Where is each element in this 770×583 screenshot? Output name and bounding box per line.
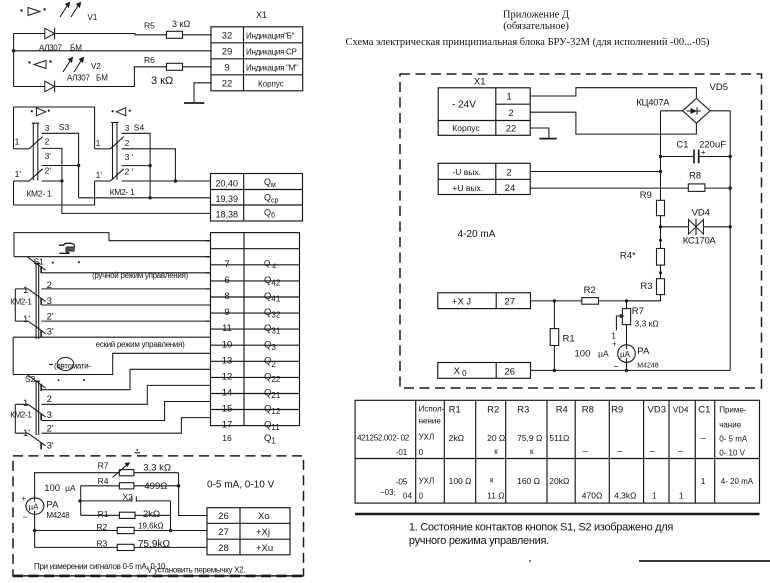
rectifier bridge VD5 (683, 98, 710, 123)
svg-text:13: 13 (222, 355, 233, 366)
svg-text:29: 29 (222, 47, 233, 58)
S2 contact seat 3 (40, 413, 42, 420)
svg-text:R2: R2 (487, 405, 499, 416)
wire meter plus to R7 row (35, 473, 120, 498)
svg-text:19,6kΩ: 19,6kΩ (138, 522, 164, 531)
left bus (minus rail) (660, 111, 662, 201)
svg-text:Q11: Q11 (264, 420, 280, 433)
capacitor C1 (661, 150, 731, 164)
tick marks on S2 top (58, 379, 60, 381)
svg-text:4-20 mA: 4-20 mA (458, 229, 496, 240)
svg-text:Q3: Q3 (264, 339, 276, 352)
svg-text:24: 24 (505, 183, 516, 194)
node above R4* (659, 239, 662, 242)
svg-text:15: 15 (222, 404, 233, 415)
svg-text:VD4: VD4 (692, 208, 710, 219)
svg-text:20,40: 20,40 (216, 178, 239, 188)
svg-text:1': 1' (15, 169, 22, 179)
wire R6 to X1 pin 9 (183, 66, 212, 68)
S3 moving contact 1' (29, 169, 42, 181)
variable resistor R7 (right) (622, 309, 630, 325)
svg-text:Испол-: Испол- (419, 405, 445, 414)
LED V1 light arrows (60, 3, 81, 18)
svg-text:2: 2 (506, 167, 511, 178)
svg-text:1: 1 (96, 138, 101, 148)
wire S2 contact a to pin14 row (step) (42, 369, 211, 389)
svg-text:Q1: Q1 (264, 433, 276, 446)
svg-text:11 Ω: 11 Ω (487, 490, 505, 500)
resistor R1 (119, 512, 135, 518)
svg-text:R7: R7 (98, 461, 109, 471)
svg-text:100: 100 (44, 483, 60, 494)
wire R5 to X1 pin 32 (183, 34, 212, 36)
S1 contact seat 3' (40, 330, 42, 337)
svg-text:Q 4: Q 4 (264, 259, 276, 271)
svg-text:R1: R1 (563, 334, 575, 345)
svg-text:V2: V2 (91, 62, 101, 71)
svg-text:22: 22 (222, 79, 233, 90)
svg-text:18,38: 18,38 (216, 209, 239, 219)
svg-text:3': 3' (45, 151, 52, 161)
wire pin 1 to bridge top (530, 88, 696, 99)
S1 contact seat a (40, 266, 42, 273)
wire S2 contacts 1'-2' to pin16 row (step) (15, 418, 210, 434)
right bus (plus rail) (729, 111, 731, 371)
svg-text:R3: R3 (96, 539, 107, 549)
svg-text:к: к (530, 447, 534, 456)
wire S3 contact 2 (42, 148, 62, 181)
svg-text:R3: R3 (640, 281, 652, 292)
wire S2 contact 3 to pin17 row (step) (42, 402, 211, 421)
wire S3 contact 1 (14, 148, 30, 150)
svg-text:3 ': 3 ' (125, 152, 134, 162)
resistor R9 (657, 200, 665, 215)
wire pin 27 row to R2 (531, 300, 582, 302)
svg-text:БМ: БМ (70, 44, 82, 53)
svg-text:04: 04 (403, 491, 412, 500)
svg-text:Индикация СР: Индикация СР (246, 47, 297, 56)
svg-text:R5: R5 (144, 21, 155, 31)
svg-text:нение: нение (419, 416, 442, 425)
svg-text:+Хj: +Хj (256, 527, 270, 538)
left bus below R9 (660, 216, 662, 249)
wire R3 row to pin 28 (35, 546, 207, 548)
svg-text:КМ2-1: КМ2-1 (10, 297, 32, 306)
svg-text:10: 10 (222, 339, 233, 350)
svg-text:R3: R3 (517, 405, 529, 416)
V1 indicator symbol (open triangle with dots) (20, 8, 45, 16)
S2 moving contact 1 (28, 404, 46, 417)
svg-text:–: – (678, 446, 683, 456)
svg-text:1': 1' (23, 314, 30, 325)
svg-text:+U вых.: +U вых. (452, 183, 483, 193)
wire X1 pin 22 to ground (194, 83, 211, 103)
svg-text:R9: R9 (640, 190, 652, 201)
wire S4 contact 3' (122, 165, 151, 167)
wire R2 to R7 node (599, 300, 661, 302)
svg-text:V установить перемычку Х2.: V установить перемычку Х2. (147, 566, 245, 575)
dashed block border (13, 456, 304, 576)
variable resistor R7 (119, 470, 133, 476)
wire to X1 pin 29 (14, 50, 211, 52)
wire meter minus bus (34, 514, 36, 547)
svg-text:2: 2 (508, 108, 513, 119)
svg-text:+: + (612, 340, 617, 349)
svg-text:−: − (614, 361, 619, 371)
svg-text:Х 0: Х 0 (454, 366, 468, 378)
X2/R1/R2 right bus (170, 501, 172, 531)
tick marks on S1 top (52, 262, 54, 264)
svg-text:3 кΩ: 3 кΩ (151, 75, 173, 87)
resistor R4 (119, 483, 133, 489)
svg-text:100: 100 (575, 349, 591, 360)
svg-text:3': 3' (47, 327, 54, 338)
S3 indicator triangle (31, 108, 50, 116)
svg-text:µА: µА (598, 349, 609, 359)
svg-text:0: 0 (419, 448, 424, 457)
svg-text:C1: C1 (698, 405, 710, 416)
resistor R4* (657, 249, 665, 266)
S1 moving contact 1' (28, 321, 46, 334)
svg-text:УХЛ: УХЛ (419, 432, 435, 441)
S2 moving contact 1' (28, 433, 46, 446)
svg-text:R4: R4 (98, 476, 109, 486)
svg-text:(обязательное): (обязательное) (503, 21, 569, 32)
wires entering connector table rows 1-6 (205, 241, 211, 321)
wire row pin6 (S1 common) (14, 256, 211, 258)
svg-text:100 Ω: 100 Ω (449, 476, 472, 486)
svg-text:АЛ307: АЛ307 (67, 74, 90, 83)
svg-text:2: 2 (125, 138, 130, 148)
svg-text:Корпус: Корпус (258, 79, 284, 88)
connector table (pins 7..16) (211, 233, 300, 426)
svg-text:- 24V: - 24V (452, 100, 476, 111)
svg-text:R1: R1 (98, 509, 109, 519)
svg-text:1: 1 (15, 137, 20, 147)
svg-text:АЛ307: АЛ307 (39, 44, 62, 53)
node R8 right (729, 186, 732, 189)
svg-text:Схема электрическая принципиал: Схема электрическая принципиальная блока… (345, 37, 710, 48)
svg-text:Q12: Q12 (264, 404, 281, 417)
svg-text:17: 17 (222, 420, 233, 431)
svg-text:1': 1' (23, 428, 30, 439)
svg-text:1: 1 (23, 398, 28, 409)
svg-text:470Ω: 470Ω (582, 491, 603, 501)
wire S1 contacts 1'-2' to pin10 row (15, 320, 210, 322)
wire S2 contacts 1-2 to pin15 row (step) (15, 385, 210, 404)
resistor R6 (167, 63, 183, 70)
svg-text:Приме-: Приме- (719, 406, 747, 415)
svg-text:µА: µА (620, 350, 631, 359)
svg-text:3: 3 (47, 410, 52, 421)
svg-text:499Ω: 499Ω (144, 481, 167, 492)
wire R1 right (135, 514, 171, 516)
ammeter PA (26, 498, 44, 514)
wire S3 contact 3' (42, 165, 79, 167)
svg-text:160 Ω: 160 Ω (517, 476, 540, 486)
svg-text:8: 8 (224, 291, 229, 302)
terminal table -U/+U вых (438, 163, 530, 194)
R7 wiper arrow (right) (616, 314, 624, 331)
svg-text:БМ: БМ (96, 74, 108, 83)
svg-text:16: 16 (222, 433, 232, 443)
wire V1 anode net (14, 34, 167, 35)
svg-text:7: 7 (224, 259, 229, 270)
LED V2 light arrows (63, 58, 84, 73)
svg-text:Индикация"Б": Индикация"Б" (246, 31, 295, 40)
svg-text:Индикация "М": Индикация "М" (246, 63, 298, 72)
svg-text:S3: S3 (59, 122, 70, 132)
wire R3 down to R2 node (627, 295, 661, 301)
svg-text:–: – (650, 446, 655, 456)
S1 left bracket (14, 289, 16, 321)
wire R4 right (134, 485, 179, 487)
node VD4 right (729, 225, 732, 228)
svg-text:+Х J: +Х J (452, 296, 472, 307)
S3 moving contact (29, 137, 42, 149)
node R1 top (553, 299, 556, 302)
svg-text:S4: S4 (134, 122, 145, 132)
svg-text:19,39: 19,39 (216, 194, 239, 204)
svg-text:220uF: 220uF (699, 140, 726, 151)
svg-text:4,3kΩ: 4,3kΩ (614, 491, 636, 501)
svg-text:26: 26 (218, 511, 229, 522)
svg-text:20kΩ: 20kΩ (549, 476, 569, 486)
V2 indicator symbol (open triangle with dots) (28, 60, 51, 68)
svg-text:9: 9 (224, 307, 229, 318)
S1 moving contact 1 (28, 289, 46, 302)
svg-text:VD4: VD4 (673, 406, 689, 415)
svg-text:2: 2 (47, 394, 52, 405)
svg-text:2 ': 2 ' (125, 166, 134, 176)
svg-text:1: 1 (23, 285, 28, 296)
wire S4 contact 2 (122, 149, 176, 181)
svg-text:0- 10 V: 0- 10 V (719, 449, 745, 458)
svg-text:Qср: Qср (264, 192, 279, 204)
resistor R5 (167, 31, 183, 38)
wire top link S3-1 to S4-1 (14, 107, 95, 149)
wire R4 left (81, 485, 120, 487)
svg-text:22: 22 (506, 124, 517, 135)
R7 wiper arrow (113, 462, 131, 477)
zener VD4 (two-anode) (689, 219, 704, 236)
S2 box left vertical (12, 337, 14, 374)
wire S3 contact 3 (42, 133, 79, 198)
svg-text:3,3 kΩ: 3,3 kΩ (143, 462, 171, 473)
S4 indicator triangle (112, 108, 131, 116)
wire meter to pin 26 row (626, 362, 628, 370)
svg-text:X1: X1 (474, 77, 486, 88)
svg-text:R8: R8 (689, 171, 701, 182)
small cross before автомати (49, 364, 53, 366)
wire S4 contact 2' to Qм row (122, 180, 212, 182)
svg-text:421252.002- 02: 421252.002- 02 (357, 433, 410, 442)
S1 contact seat 3 (40, 298, 42, 305)
svg-text:РА: РА (637, 346, 650, 357)
svg-text:VD3: VD3 (648, 405, 666, 416)
svg-text:32: 32 (222, 31, 233, 42)
svg-text:(ручной режим управления): (ручной режим управления) (92, 271, 189, 280)
svg-text:М4248: М4248 (46, 511, 70, 520)
svg-text:1': 1' (96, 170, 103, 180)
wire R2 row to pin 27 (35, 530, 207, 532)
wire VD4 row (661, 226, 731, 228)
svg-text:1: 1 (652, 491, 657, 501)
svg-text:1: 1 (701, 476, 706, 486)
svg-text:µА: µА (29, 502, 40, 511)
svg-text:2kΩ: 2kΩ (143, 509, 160, 520)
ammeter PA (right) (618, 345, 636, 363)
wire R7 top lead (626, 301, 628, 309)
wire V2 bottom net (14, 67, 167, 87)
node R7 top (625, 299, 628, 302)
svg-text:2kΩ: 2kΩ (449, 433, 464, 443)
svg-text:R4*: R4* (620, 250, 636, 261)
node S4 3/3' junction (148, 164, 151, 167)
svg-text:−: − (23, 512, 28, 522)
switch S4 plunger (111, 123, 119, 180)
svg-text:2: 2 (45, 137, 50, 147)
svg-text:R2: R2 (96, 522, 107, 532)
wire S1 contacts 1-2 to pin9 row (15, 288, 210, 290)
wire S4 contact 3 (122, 133, 151, 198)
svg-text:0-5 mA, 0-10 V: 0-5 mA, 0-10 V (207, 480, 275, 491)
wire Qб row (62, 181, 211, 213)
svg-text:X1: X1 (256, 10, 267, 20)
svg-text:20 Ω: 20 Ω (487, 433, 505, 443)
svg-text:Q22: Q22 (264, 372, 281, 385)
S2 contact seat 3' (40, 442, 42, 449)
svg-text:−03;: −03; (380, 488, 396, 497)
wire S2 common to pin12 row (step) (13, 353, 210, 374)
ground (right) (539, 138, 557, 140)
right bus (to pin 26) (179, 473, 207, 516)
S2 moving contact (27, 375, 45, 389)
svg-text:2: 2 (47, 280, 52, 291)
LED V1 (45, 28, 55, 40)
wire Qср row (79, 197, 211, 199)
node meter minus (625, 369, 628, 372)
wire S4 contact 1 (95, 148, 111, 150)
S4 moving contact (110, 137, 124, 149)
svg-text:Q32: Q32 (264, 307, 281, 320)
resistor R1 (right) (550, 329, 559, 346)
svg-text:12: 12 (222, 372, 233, 383)
svg-text:Корпус: Корпус (452, 123, 480, 133)
svg-text:C1: C1 (676, 140, 688, 151)
wire bottom link S3-1' to S4-1' (14, 181, 95, 205)
svg-text:11: 11 (222, 323, 232, 334)
S4 moving contact 1' (110, 169, 124, 181)
svg-text:Q41: Q41 (264, 291, 281, 304)
wire +U вых to R8 (530, 187, 688, 189)
wire S3 contact 2' (42, 180, 62, 182)
wire pin 22 to ground (530, 128, 549, 139)
ellipse mark around авто (57, 357, 74, 370)
svg-text:–: – (617, 446, 622, 456)
svg-text:R9: R9 (611, 405, 623, 416)
jumper X2 (81, 496, 171, 501)
node C1 left (659, 155, 662, 158)
node VD4 left (659, 225, 662, 228)
svg-text:75,9 Ω: 75,9 Ω (517, 433, 542, 443)
svg-text:КЦ407А: КЦ407А (636, 98, 670, 109)
resistor R2 (117, 527, 134, 533)
connector X1 (right) table (438, 88, 530, 136)
LED V2 (45, 81, 55, 93)
svg-text:R6: R6 (144, 55, 155, 65)
wire S1 contact a to pin8 row (42, 272, 211, 274)
node C1 right (729, 155, 732, 158)
svg-text:3,3 кΩ: 3,3 кΩ (635, 318, 659, 328)
svg-text:R1: R1 (449, 405, 461, 416)
connector X1 (left) table (211, 27, 303, 91)
wire -U вых to minus rail (530, 171, 660, 173)
wire row pin7 (S1 box step) (14, 233, 211, 257)
svg-text:3: 3 (47, 296, 52, 307)
svg-text:–: – (701, 433, 706, 443)
node between R4* and R3 (659, 271, 662, 274)
svg-text:-U вых.: -U вых. (452, 167, 481, 177)
svg-text:4- 20 mA: 4- 20 mA (721, 477, 754, 486)
svg-text:КМ2-1: КМ2-1 (10, 410, 32, 419)
svg-text:3 кΩ: 3 кΩ (172, 19, 190, 29)
wire S4 contact 1' (95, 180, 111, 182)
svg-text:2': 2' (45, 165, 52, 175)
resistor R2 (right) (582, 298, 599, 305)
node S3 3/3' junction (77, 164, 80, 167)
resistor R3 (117, 544, 134, 550)
svg-text:28: 28 (218, 543, 229, 554)
svg-text:–: – (583, 446, 588, 456)
node S3 2/2' junction (60, 179, 63, 182)
switch S1 plunger (35, 263, 41, 339)
node R1 bottom (553, 369, 556, 372)
svg-text:+: + (22, 494, 27, 503)
svg-text:R2: R2 (584, 285, 596, 296)
wire bridge minus to left bus (661, 110, 683, 112)
svg-text:R4: R4 (556, 405, 568, 416)
small dot bottom (529, 560, 531, 562)
svg-text:1. Состояние контактов кнопок: 1. Состояние контактов кнопок S1, S2 изо… (409, 522, 674, 534)
svg-text:Q42: Q42 (264, 275, 281, 288)
svg-text:27: 27 (218, 527, 229, 538)
terminal table Qм/Qср/Qб (211, 174, 303, 222)
node meter/R2 row (33, 529, 36, 532)
colon mark above dashed box (135, 452, 141, 454)
svg-text:-01: -01 (396, 448, 408, 457)
svg-text:6: 6 (224, 275, 229, 286)
svg-text:3: 3 (45, 123, 50, 133)
svg-text:Приложение Д: Приложение Д (503, 9, 569, 20)
svg-text:Q2: Q2 (264, 355, 276, 369)
svg-text:еский режим управления): еский режим управления) (96, 340, 185, 349)
svg-text:Qб: Qб (264, 208, 275, 220)
svg-text:Q21: Q21 (264, 388, 281, 401)
left bus between R4* and R3 (660, 265, 662, 279)
node R2/right bus (169, 529, 172, 532)
wire bridge plus to right bus (710, 110, 730, 112)
switch S3 plunger (32, 123, 40, 180)
wire R1 top (553, 301, 555, 329)
svg-text:ручного режима управления.: ручного режима управления. (409, 535, 549, 547)
node -U wire on left bus (659, 170, 662, 173)
terminal table X o / 26 (438, 363, 531, 379)
svg-text:3': 3' (47, 441, 54, 452)
wire R8 to plus rail (705, 187, 730, 189)
svg-text:-05: -05 (396, 478, 408, 487)
svg-text:14: 14 (222, 388, 233, 399)
